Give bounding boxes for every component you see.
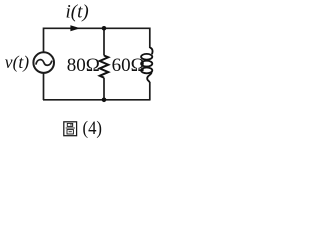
wire middle upper xyxy=(103,28,105,55)
source U1 circle xyxy=(33,52,54,73)
wire right lower xyxy=(149,82,151,101)
caption glyph tu (figure) xyxy=(64,122,77,136)
node top junction xyxy=(102,26,107,31)
svg-text:i(t): i(t) xyxy=(66,2,89,23)
wire bottom xyxy=(43,99,150,101)
wire right upper xyxy=(149,28,151,49)
svg-text:v(t): v(t) xyxy=(5,52,29,72)
wire top xyxy=(43,27,150,29)
wire left upper xyxy=(43,28,45,53)
wire middle lower xyxy=(103,78,105,100)
inductor L1 coil xyxy=(141,48,152,83)
svg-text:(4): (4) xyxy=(83,118,103,139)
current arrow head xyxy=(70,25,80,31)
svg-text:80Ω: 80Ω xyxy=(67,55,100,76)
svg-text:60Ω: 60Ω xyxy=(112,55,145,76)
node bottom junction xyxy=(102,98,107,103)
source sine wave xyxy=(36,60,52,66)
resistor R1 zigzag xyxy=(100,56,109,78)
wire left lower xyxy=(43,73,45,100)
